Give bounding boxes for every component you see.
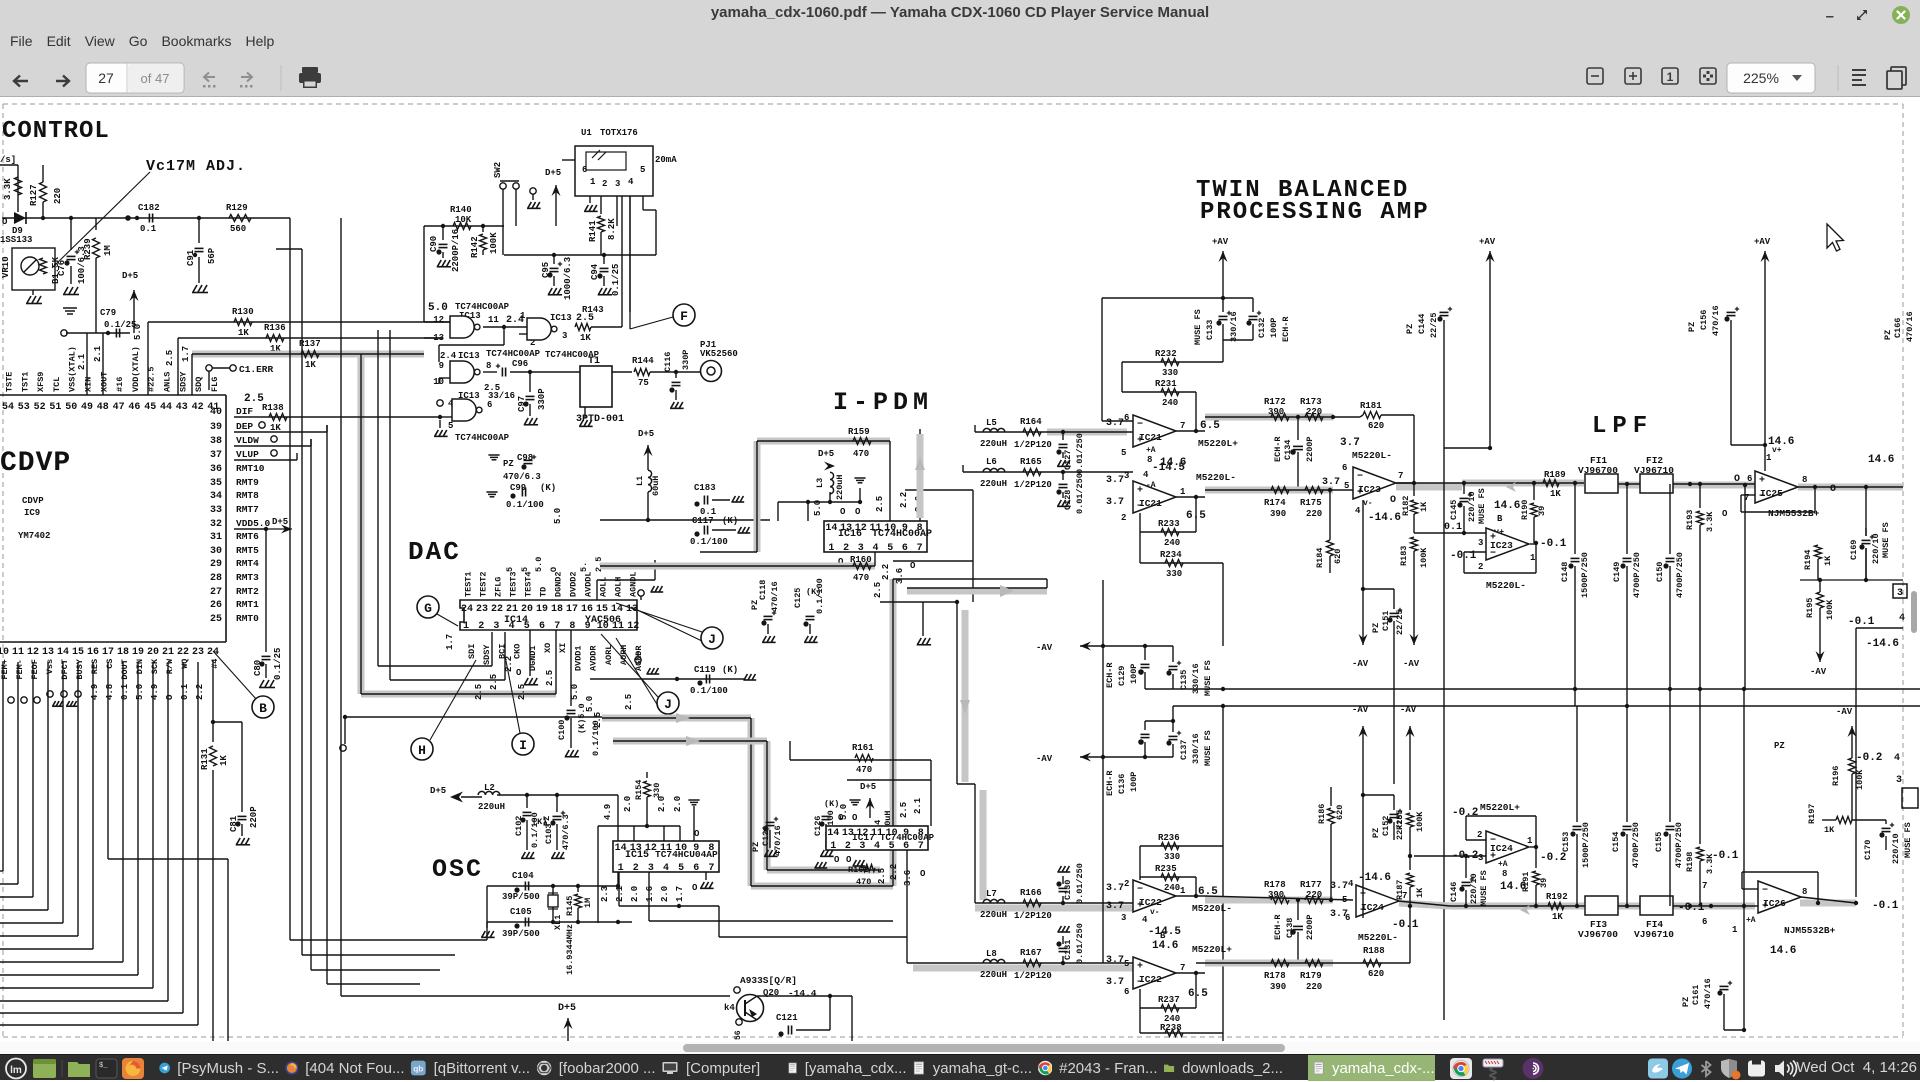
svg-text:1.7: 1.7 — [675, 886, 685, 902]
wire — [1223, 339, 1253, 341]
svg-text:10K: 10K — [455, 215, 472, 225]
capacitor C148 — [1574, 483, 1576, 554]
svg-text:XIN: XIN — [84, 377, 94, 392]
svg-text:23: 23 — [476, 604, 488, 615]
svg-text:470/16: 470/16 — [773, 825, 783, 856]
svg-text:IC25: IC25 — [1760, 488, 1783, 499]
svg-text:4: 4 — [1348, 879, 1354, 889]
svg-text:2.3: 2.3 — [600, 886, 610, 902]
wire — [17, 662, 19, 884]
node H — [411, 738, 433, 760]
svg-text:25: 25 — [210, 614, 222, 625]
svg-text:O: O — [1722, 509, 1728, 519]
wire — [92, 662, 94, 949]
svg-text:12: 12 — [627, 621, 639, 632]
ground — [744, 679, 746, 680]
svg-text:IC15: IC15 — [625, 850, 649, 861]
ground — [437, 260, 451, 267]
svg-text:−: − — [1357, 472, 1363, 483]
svg-text:4700P/250: 4700P/250 — [1675, 552, 1685, 598]
svg-text:1: 1 — [590, 177, 596, 187]
svg-text:C90: C90 — [429, 236, 439, 252]
svg-text:38: 38 — [210, 436, 222, 447]
resistor R164 — [1023, 429, 1041, 436]
svg-text:R195: R195 — [1805, 598, 1815, 618]
ground — [527, 202, 541, 208]
wire — [439, 377, 450, 379]
svg-text:220: 220 — [1306, 407, 1322, 417]
wire R137 highlighted — [192, 351, 424, 358]
wire rail y706 — [1173, 705, 1920, 707]
svg-text:330/16: 330/16 — [1229, 311, 1239, 342]
wire v x1575 — [1574, 689, 1576, 706]
capacitor C135 — [1172, 646, 1174, 662]
resistor R182 — [1413, 483, 1415, 496]
svg-text:5: 5 — [520, 567, 530, 572]
capacitor C132 — [1249, 315, 1258, 317]
svg-text:MUSE FS: MUSE FS — [1203, 660, 1213, 696]
wire — [829, 996, 831, 1030]
svg-text:AVDDR: AVDDR — [589, 645, 599, 671]
svg-text:3: 3 — [1124, 471, 1129, 481]
svg-text:+AV: +AV — [1754, 237, 1771, 247]
svg-text:6: 6 — [1747, 474, 1752, 484]
svg-text:27: 27 — [210, 587, 222, 598]
svg-text:M5220L+: M5220L+ — [1192, 944, 1232, 955]
svg-text:470: 470 — [856, 765, 872, 775]
svg-text:11: 11 — [488, 315, 499, 325]
svg-text:DFCT: DFCT — [60, 659, 70, 679]
svg-text:14.6: 14.6 — [1768, 436, 1794, 448]
svg-text:PZ: PZ — [1774, 741, 1785, 751]
svg-text:7: 7 — [1398, 471, 1403, 481]
resistor R179 R178b — [1271, 960, 1289, 967]
svg-text:R193: R193 — [1685, 510, 1695, 530]
svg-text:0.1: 0.1 — [180, 683, 190, 700]
svg-text:330/16: 330/16 — [1191, 733, 1201, 764]
svg-text:R196: R196 — [1831, 766, 1841, 786]
node I — [512, 733, 534, 755]
svg-text:10: 10 — [0, 647, 9, 658]
svg-text:-0.1: -0.1 — [1540, 538, 1567, 550]
svg-text:2.0: 2.0 — [673, 796, 683, 812]
wire r161 — [847, 779, 931, 781]
gray arrow — [1000, 585, 1014, 597]
resistor R231 — [1122, 391, 1196, 393]
svg-text:TSTE: TSTE — [5, 372, 15, 392]
wire U1 pins — [589, 196, 591, 203]
svg-text:ECH-R: ECH-R — [1105, 662, 1115, 688]
IC IC16 — [824, 521, 927, 552]
svg-text:8.2K: 8.2K — [607, 218, 617, 240]
svg-text:6: 6 — [902, 543, 908, 554]
svg-text:−: − — [1137, 420, 1143, 431]
firefox icon — [122, 1058, 144, 1079]
svg-text:1: 1 — [1180, 487, 1186, 497]
svg-text:220/10: 220/10 — [1467, 491, 1477, 522]
svg-text:C150: C150 — [1655, 562, 1665, 582]
svg-text:J: J — [664, 697, 672, 712]
svg-text:39: 39 — [1537, 506, 1547, 516]
wire — [483, 326, 527, 328]
resistor R177 — [1305, 897, 1323, 904]
svg-text:R189: R189 — [1544, 470, 1566, 480]
svg-text:O: O — [692, 883, 698, 893]
resistor R154 — [646, 772, 648, 778]
svg-text:#4: #4 — [210, 659, 220, 669]
svg-text:R178: R178 — [1264, 971, 1286, 981]
svg-text:C161: C161 — [1691, 985, 1701, 1005]
svg-text:R145: R145 — [565, 896, 575, 916]
svg-text:14: 14 — [57, 647, 69, 658]
capacitor C155 — [1669, 689, 1671, 822]
svg-text:-0.2: -0.2 — [1540, 852, 1566, 864]
svg-text:-AV: -AV — [1352, 659, 1369, 669]
svg-text:DIF: DIF — [236, 406, 253, 417]
svg-text:-0.2: -0.2 — [1452, 807, 1478, 819]
svg-text:C152: C152 — [1381, 816, 1391, 836]
capacitor C76 — [70, 218, 72, 250]
wire bus — [360, 354, 362, 694]
svg-text:AORL: AORL — [604, 645, 614, 665]
capacitor C134 — [1296, 415, 1300, 419]
svg-text:D+5: D+5 — [272, 517, 288, 527]
svg-text:1K: 1K — [1415, 887, 1425, 898]
svg-text:3.7: 3.7 — [1106, 977, 1124, 988]
svg-text:O: O — [852, 813, 858, 823]
wire rail2 — [1800, 579, 1903, 581]
resistor R159 — [757, 440, 890, 442]
svg-text:46: 46 — [128, 402, 140, 413]
svg-text:34: 34 — [210, 491, 222, 502]
svg-text:PZ: PZ — [751, 842, 761, 852]
gray arrows — [676, 713, 690, 723]
svg-text:XOUT: XOUT — [99, 372, 109, 392]
svg-text:3: 3 — [1121, 913, 1126, 923]
svg-text:1K: 1K — [1824, 825, 1835, 835]
svg-text:30: 30 — [210, 546, 222, 557]
svg-text:50: 50 — [65, 402, 77, 413]
svg-text:5: 5 — [505, 567, 515, 572]
svg-text:5: 5 — [640, 165, 645, 175]
resistor R140 — [453, 223, 471, 230]
svg-text:4.9: 4.9 — [150, 684, 160, 700]
svg-text:6: 6 — [487, 400, 492, 410]
wire aol terminal — [343, 715, 347, 719]
svg-text:RMT6: RMT6 — [236, 531, 259, 542]
wire — [197, 662, 199, 1025]
wire — [618, 872, 620, 906]
svg-text:45: 45 — [144, 402, 156, 413]
svg-text:RMT5: RMT5 — [236, 545, 259, 556]
wire rail y689 — [1223, 688, 1920, 690]
svg-text:28: 28 — [210, 573, 222, 584]
svg-text:C130: C130 — [1063, 880, 1073, 900]
wire highlighted lower — [1205, 487, 1333, 494]
svg-text:R131: R131 — [200, 748, 210, 770]
gray arrow — [915, 456, 925, 470]
svg-text:L3: L3 — [815, 478, 825, 488]
svg-text:44: 44 — [160, 402, 172, 413]
power +AV mid — [1489, 251, 1491, 448]
svg-text:49: 49 — [81, 402, 93, 413]
svg-text:DEP: DEP — [236, 421, 253, 432]
svg-text:1.7: 1.7 — [181, 346, 191, 362]
resistor R192 — [1548, 903, 1564, 910]
svg-text:/s]: /s] — [0, 155, 16, 165]
wire xtal — [86, 333, 88, 395]
svg-text:+AV: +AV — [1212, 237, 1229, 247]
svg-text:620: 620 — [1368, 421, 1384, 431]
svg-text:17: 17 — [566, 604, 578, 615]
svg-text:R194: R194 — [1803, 550, 1813, 570]
svg-text:F: F — [680, 309, 688, 324]
svg-text:FLG: FLG — [210, 377, 220, 392]
ground — [852, 860, 865, 866]
wire — [1743, 1029, 1745, 1031]
svg-text:2: 2 — [602, 179, 607, 189]
wire — [1444, 447, 1490, 449]
svg-text:220/10: 220/10 — [1891, 833, 1901, 864]
svg-text:RMT9: RMT9 — [236, 477, 259, 488]
svg-text:3.7: 3.7 — [1106, 901, 1124, 912]
capacitor C154 — [1626, 706, 1628, 822]
svg-text:5.0: 5.0 — [133, 324, 143, 340]
svg-text:WQ: WQ — [180, 659, 190, 669]
svg-text:470: 470 — [856, 877, 871, 887]
svg-text:R167: R167 — [1020, 948, 1042, 958]
svg-text:R185: R185 — [1395, 810, 1405, 830]
svg-text:100K: 100K — [1419, 547, 1429, 568]
svg-text:v-: v- — [1150, 908, 1160, 917]
wire mid — [1205, 897, 1333, 904]
svg-text:620: 620 — [1333, 549, 1343, 564]
svg-text:DGND2: DGND2 — [554, 571, 564, 597]
svg-text:Vc17M ADJ.: Vc17M ADJ. — [146, 158, 246, 175]
svg-text:+AV: +AV — [1479, 237, 1496, 247]
ground rail — [688, 800, 699, 805]
wire feedback ic23b — [1464, 551, 1486, 553]
wire — [1764, 445, 1766, 471]
wire — [437, 614, 458, 626]
svg-text:100K: 100K — [1855, 769, 1865, 790]
svg-text:-0.1: -0.1 — [1678, 902, 1705, 914]
svg-text:J: J — [708, 632, 716, 647]
resistor R187 — [1409, 856, 1411, 870]
svg-text:470/16: 470/16 — [770, 581, 780, 612]
svg-text:FEM-: FEM- — [15, 659, 25, 679]
svg-text:M5220L-: M5220L- — [1196, 472, 1236, 483]
svg-text:100P: 100P — [1269, 318, 1279, 338]
svg-text:VR10: VR10 — [1, 256, 11, 278]
svg-text:3.7: 3.7 — [1106, 955, 1124, 966]
svg-text:22: 22 — [491, 604, 503, 615]
svg-text:3.7: 3.7 — [1106, 497, 1124, 508]
trimmer VR10 — [12, 248, 55, 290]
svg-text:CDVP: CDVP — [22, 496, 44, 506]
svg-text:14.6: 14.6 — [1868, 454, 1894, 466]
capacitor C169 — [1865, 487, 1867, 536]
svg-text:IC16: IC16 — [838, 529, 862, 540]
svg-text:1: 1 — [520, 311, 526, 321]
svg-text:TC74HC00AP: TC74HC00AP — [486, 349, 541, 359]
svg-text:3: 3 — [493, 621, 499, 632]
svg-text:1K: 1K — [219, 755, 229, 766]
svg-text:CKO: CKO — [513, 644, 523, 659]
svg-text:15: 15 — [596, 604, 608, 615]
resistor R136 — [178, 337, 443, 339]
svg-text:L6: L6 — [986, 457, 997, 467]
svg-text:48: 48 — [97, 402, 109, 413]
svg-text:CDVP: CDVP — [0, 448, 71, 479]
svg-text:5: 5 — [1344, 481, 1349, 491]
svg-text:M5220L+: M5220L+ — [1198, 438, 1238, 449]
svg-text:R130: R130 — [232, 307, 254, 317]
svg-text:3.7: 3.7 — [1106, 883, 1124, 894]
svg-text:of 47: of 47 — [141, 71, 170, 86]
svg-text:C144: C144 — [1417, 314, 1427, 334]
svg-text:2.2: 2.2 — [899, 492, 909, 508]
wire L6 — [963, 471, 1133, 473]
svg-text:R237: R237 — [1158, 995, 1180, 1005]
svg-text:2.2: 2.2 — [504, 656, 514, 672]
resistor R233 — [1140, 531, 1196, 533]
svg-text:M5220L-: M5220L- — [1486, 580, 1526, 591]
svg-text:A933S[Q/R]: A933S[Q/R] — [740, 975, 797, 986]
resistor R174 — [1271, 487, 1289, 494]
svg-text:R159: R159 — [848, 427, 870, 437]
svg-text:470/16: 470/16 — [1703, 978, 1713, 1009]
svg-text:-0.1: -0.1 — [1392, 919, 1419, 931]
test point C1.ERR — [206, 365, 212, 371]
svg-text:IC21: IC21 — [1139, 432, 1162, 443]
svg-text:C156: C156 — [1699, 310, 1709, 330]
svg-text:5: 5 — [448, 421, 453, 431]
wire vertical x1223 lower — [1222, 706, 1224, 1041]
svg-text:5: 5 — [1342, 895, 1347, 905]
svg-text:R178: R178 — [1264, 880, 1286, 890]
wire — [789, 741, 791, 760]
capacitor C182 — [148, 214, 150, 223]
wire — [919, 429, 921, 521]
svg-text:IC14: IC14 — [504, 615, 528, 626]
svg-text:-AV: -AV — [1836, 707, 1853, 717]
wire y588 bus — [907, 588, 1047, 595]
svg-text:TC74HC00AP: TC74HC00AP — [880, 833, 935, 843]
svg-text:54: 54 — [2, 402, 14, 413]
svg-text:IC23: IC23 — [1490, 540, 1513, 551]
resistor R178 — [1271, 897, 1289, 904]
resistor R165 — [1023, 469, 1041, 476]
ground — [1057, 500, 1071, 506]
wire — [1801, 897, 1856, 903]
svg-text:DOUT: DOUT — [120, 659, 130, 679]
wire bus — [289, 218, 291, 940]
svg-text:VJ96700: VJ96700 — [1578, 929, 1618, 940]
svg-text:O: O — [840, 507, 846, 517]
IC9 bottom edge — [0, 641, 226, 643]
wire feedback left — [1101, 298, 1103, 421]
capacitor C146 — [1465, 856, 1467, 878]
svg-text:7: 7 — [708, 863, 714, 874]
ground — [52, 701, 63, 706]
svg-text:220/10: 220/10 — [1871, 533, 1881, 564]
svg-text:R183: R183 — [1399, 546, 1409, 566]
svg-text:O: O — [2, 217, 8, 227]
svg-text:C149: C149 — [1612, 562, 1622, 582]
IC IC14 YAC506 — [460, 600, 637, 630]
svg-text:2.5: 2.5 — [624, 694, 634, 710]
wire — [1798, 486, 1903, 488]
svg-text:0.01/250: 0.01/250 — [1075, 923, 1085, 964]
svg-text:SDSY: SDSY — [178, 371, 188, 392]
svg-text:-0.2: -0.2 — [1452, 850, 1478, 862]
svg-text:-14.6: -14.6 — [1866, 638, 1899, 650]
svg-text:2: 2 — [1477, 830, 1482, 840]
svg-text:47: 47 — [113, 402, 125, 413]
ground — [1057, 460, 1071, 466]
svg-text:4: 4 — [1899, 613, 1905, 624]
wire — [2, 217, 290, 219]
wire — [62, 662, 64, 923]
wire feedback ic26 — [1742, 888, 1758, 890]
svg-text:3PTD-001: 3PTD-001 — [576, 414, 624, 425]
svg-text:C151: C151 — [1381, 611, 1391, 631]
ground — [804, 636, 818, 642]
svg-text:O: O — [920, 869, 926, 879]
svg-text:2.5: 2.5 — [899, 802, 909, 818]
svg-text:C169: C169 — [1849, 540, 1859, 560]
resistor R196 — [1849, 758, 1856, 774]
svg-text:330: 330 — [652, 783, 662, 798]
svg-text:2: 2 — [478, 621, 484, 632]
svg-text:-0.1: -0.1 — [1712, 850, 1739, 862]
svg-text:+: + — [1137, 486, 1143, 497]
resistor R145 — [577, 886, 579, 892]
wire — [32, 662, 34, 897]
svg-text:3.3K: 3.3K — [1705, 511, 1715, 532]
resistor R137 — [192, 353, 424, 355]
wire xi down — [555, 630, 557, 660]
svg-text:C132: C132 — [1257, 318, 1267, 338]
svg-text:MUSE FS: MUSE FS — [1203, 730, 1213, 766]
resistor R236 — [1140, 845, 1223, 847]
ground rail — [849, 800, 860, 805]
svg-text:3.7: 3.7 — [1340, 437, 1360, 449]
wire lpf2 main — [1450, 903, 1584, 910]
svg-text:390: 390 — [1270, 982, 1286, 992]
capacitor C127 — [1061, 430, 1065, 434]
capacitor C96 — [483, 371, 497, 373]
svg-text:#16: #16 — [115, 377, 125, 392]
svg-text:FEM+: FEM+ — [0, 659, 10, 679]
svg-text:2: 2 — [845, 841, 851, 852]
svg-text:56: 56 — [734, 1030, 743, 1040]
svg-text:5.0: 5.0 — [135, 684, 145, 700]
svg-text:8: 8 — [1502, 869, 1507, 879]
inductor L8 — [983, 959, 1005, 963]
svg-text:4: 4 — [1894, 753, 1900, 764]
svg-text:12: 12 — [27, 647, 39, 658]
wire — [612, 371, 632, 373]
svg-text:PZ: PZ — [1687, 322, 1697, 332]
svg-text:2.0: 2.0 — [657, 796, 667, 812]
svg-text:R138: R138 — [262, 403, 284, 413]
wire -AV rail upper — [1080, 645, 1103, 647]
svg-text:3.3K: 3.3K — [3, 178, 13, 200]
svg-text:3.7: 3.7 — [1322, 477, 1340, 488]
svg-text:R188: R188 — [1363, 946, 1385, 956]
